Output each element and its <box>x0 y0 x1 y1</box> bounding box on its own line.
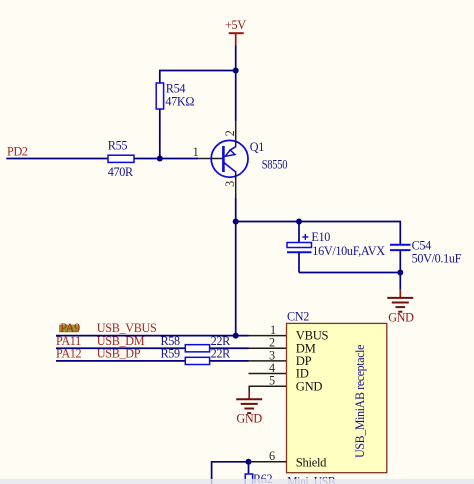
svg-text:22R: 22R <box>211 346 232 360</box>
svg-text:S8550: S8550 <box>262 158 288 172</box>
power +5V <box>225 18 246 45</box>
bottom scrollbar strip <box>0 479 474 484</box>
junction top <box>233 68 239 74</box>
svg-text:PA12: PA12 <box>56 346 82 360</box>
svg-text:R54: R54 <box>166 81 186 95</box>
svg-text:5: 5 <box>269 374 275 388</box>
wire pin3 to junction <box>235 197 237 221</box>
pin 5 stub CN2 <box>249 385 287 387</box>
wire R55 to Q1 base <box>134 158 198 160</box>
ground GND C54 <box>387 273 414 325</box>
junction pin6 <box>246 459 252 465</box>
pin 4 stub CN2 <box>249 373 287 375</box>
resistor R54 <box>156 81 194 109</box>
pin 2 stub of Q1 <box>235 121 237 146</box>
wire DM right <box>210 347 249 349</box>
pin 3 stub CN2 <box>249 360 287 362</box>
ground GND pin5 <box>236 386 262 425</box>
svg-text:GND: GND <box>236 412 262 426</box>
junction collector <box>233 219 239 225</box>
wire DP left <box>56 360 185 362</box>
svg-text:1: 1 <box>193 145 199 159</box>
pin 1 stub CN2 <box>249 335 287 337</box>
svg-text:Q1: Q1 <box>250 140 264 154</box>
pin 3 stub of Q1 <box>235 172 237 197</box>
wire bottom caps <box>299 272 400 274</box>
junction C54 bottom <box>397 270 403 276</box>
wire R54 top stub <box>159 70 161 83</box>
svg-text:GND: GND <box>388 310 414 324</box>
net label PA9 highlighted <box>59 321 80 335</box>
svg-text:47KΩ: 47KΩ <box>165 95 194 109</box>
svg-text:USB_DP: USB_DP <box>97 346 141 360</box>
svg-text:R59: R59 <box>161 346 181 360</box>
wire junction to pin2 <box>235 71 237 122</box>
resistor R59 <box>185 357 209 364</box>
svg-text:2: 2 <box>223 130 237 136</box>
wire to R62 <box>248 462 250 474</box>
svg-text:Shield: Shield <box>296 455 327 469</box>
pin 6 stub CN2 <box>249 461 287 463</box>
junction base <box>157 156 163 162</box>
pin 1 stub of Q1 <box>198 158 223 160</box>
transistor Q1 <box>211 130 287 187</box>
svg-text:16V/10uF,AVX: 16V/10uF,AVX <box>312 244 385 258</box>
svg-text:C54: C54 <box>412 238 432 252</box>
wire down to VBUS <box>235 222 237 336</box>
svg-text:470R: 470R <box>108 165 134 179</box>
wire collector to caps <box>236 221 401 223</box>
wire VBUS <box>56 335 249 337</box>
pin 2 stub CN2 <box>249 347 287 349</box>
resistor R55 <box>108 139 134 179</box>
wire +5V to junction <box>235 46 237 71</box>
wire DP right <box>210 360 249 362</box>
svg-text:E10: E10 <box>311 230 330 244</box>
wire DM left <box>56 347 185 349</box>
svg-text:PD2: PD2 <box>7 145 28 159</box>
svg-text:50V/0.1uF: 50V/0.1uF <box>412 252 462 266</box>
svg-text:R55: R55 <box>108 139 128 153</box>
connector CN2 <box>287 309 387 472</box>
resistor R62 (cut off at bottom) <box>245 474 252 484</box>
junction VBUS <box>233 333 239 339</box>
wire top horizontal to R54 <box>160 70 236 72</box>
wire R54 bottom stub <box>159 109 161 159</box>
svg-text:GND: GND <box>296 379 323 393</box>
svg-text:+5V: +5V <box>225 18 246 32</box>
svg-text:USB_MiniAB receptacle: USB_MiniAB receptacle <box>353 345 367 458</box>
resistor R58 <box>185 345 209 352</box>
wire pin6 from bottom left <box>212 462 249 484</box>
wire PD2 to R55 <box>6 158 108 160</box>
capacitor C54 <box>390 221 462 273</box>
svg-text:6: 6 <box>269 449 275 463</box>
capacitor E10 <box>287 222 385 273</box>
svg-text:CN2: CN2 <box>287 309 309 323</box>
junction E10 top <box>296 219 302 225</box>
